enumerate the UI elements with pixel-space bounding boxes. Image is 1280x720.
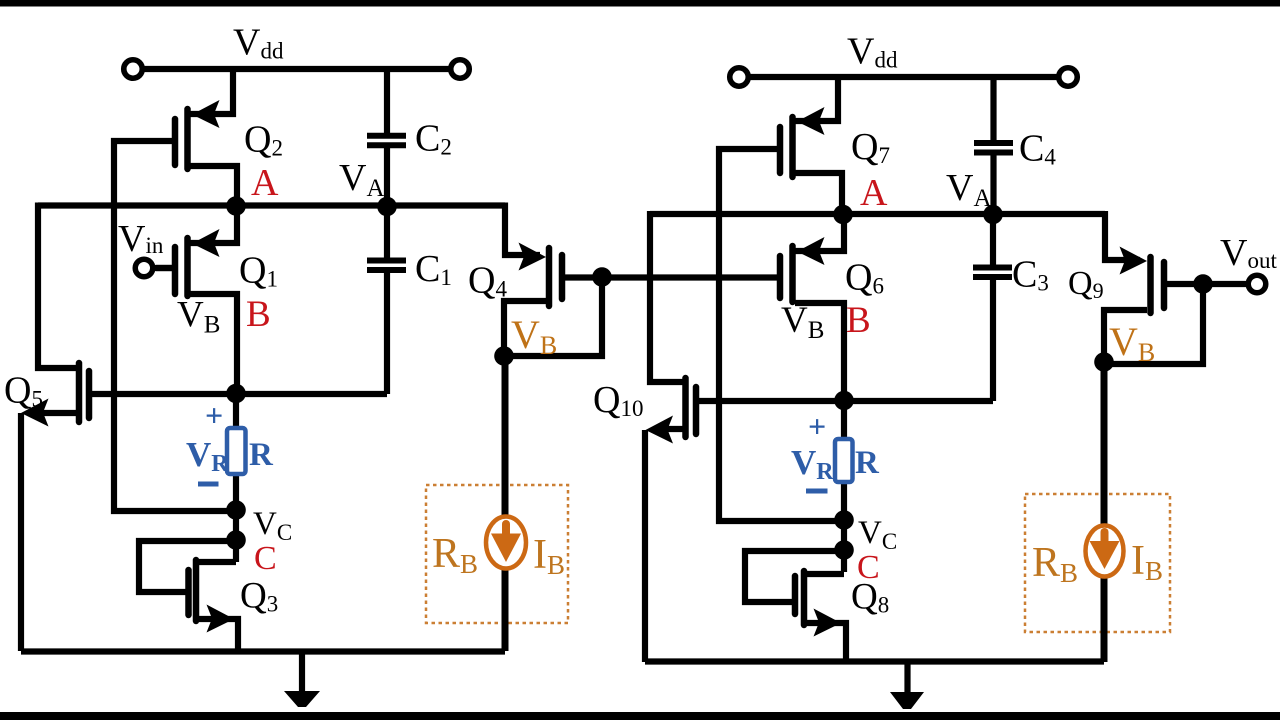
node C junction 2 stage 2 bbox=[834, 540, 854, 560]
node VB junction stage 1 bbox=[494, 346, 514, 366]
wire IB to ground stage 1 bbox=[502, 566, 509, 651]
node VB junction stage 2 bbox=[1094, 352, 1114, 372]
input terminal Vin bbox=[135, 259, 153, 277]
wire C1 bottom to node B bbox=[384, 272, 390, 394]
label minus stage 1 bbox=[198, 482, 219, 487]
power terminal Vdd right stage 1 bbox=[451, 60, 470, 79]
wire node A bus bbox=[38, 202, 505, 208]
wire node B through R to Q8 drain stage 2 bbox=[841, 401, 847, 572]
transistor Q7 bbox=[780, 74, 842, 217]
wire Vdd rail stage 1 bbox=[142, 66, 451, 72]
wire IB to ground stage 2 bbox=[1101, 573, 1108, 662]
node VA junction stage 1 bbox=[377, 197, 397, 217]
svg-text:C: C bbox=[254, 540, 277, 577]
wire Q7 gate to node C stage 2 bbox=[719, 149, 844, 521]
transistor Q3 bbox=[189, 560, 239, 651]
resistor R stage 1 bbox=[227, 428, 246, 474]
transistor Q9 bbox=[1104, 211, 1246, 362]
current source IB stage 2 bbox=[1086, 526, 1124, 577]
wire node B bus stage 2 bbox=[699, 398, 993, 404]
current source IB stage 1 bbox=[486, 517, 526, 569]
wire C3 top bbox=[990, 214, 996, 265]
capacitor C3 bbox=[973, 268, 1012, 278]
wire node B through R to Q3 drain bbox=[233, 394, 239, 562]
wire node A bus stage 2 bbox=[650, 211, 1105, 217]
node C junction 1 stage 2 bbox=[834, 510, 854, 530]
wire node A to Q10 drain bbox=[650, 211, 683, 382]
power terminal Vdd right stage 2 bbox=[1059, 68, 1078, 87]
wire ground bus stage 1 bbox=[21, 648, 505, 654]
transistor Q1 bbox=[156, 206, 237, 394]
power terminal Vdd left stage 1 bbox=[124, 60, 143, 79]
node B junction stage 2 bbox=[834, 391, 854, 411]
wire node B bus bbox=[92, 391, 387, 397]
node Vout junction bbox=[1193, 274, 1213, 294]
STAGE1 wires bbox=[21, 69, 778, 652]
transistor Q5 bbox=[21, 363, 89, 651]
bias network box RB stage 1 bbox=[426, 485, 568, 623]
power terminal Vdd left stage 2 bbox=[730, 68, 749, 87]
svg-text:B: B bbox=[246, 294, 271, 335]
wire Q2 gate to node C bbox=[114, 141, 236, 511]
wire interstage Q4 gate to Q6 gate bbox=[564, 274, 778, 280]
node VA junction stage 2 bbox=[983, 205, 1003, 225]
wire C1 top bbox=[384, 206, 390, 258]
bias network box RB stage 2 bbox=[1025, 494, 1170, 632]
wire node A to Q5 drain bbox=[38, 203, 77, 369]
wire C2 bottom to node VA bbox=[384, 148, 390, 206]
svg-text:R: R bbox=[855, 445, 880, 481]
ground symbol stage 2 bbox=[890, 662, 924, 709]
node B junction stage 1 bbox=[226, 384, 246, 404]
wire Q3 gate loop bbox=[139, 541, 236, 592]
wire C4 bottom to node VA bbox=[990, 155, 996, 214]
node Q4 gate junction bbox=[592, 267, 612, 287]
transistor Q6 bbox=[780, 214, 844, 401]
transistor Q10 bbox=[645, 378, 696, 662]
wire C4 top bbox=[990, 77, 996, 140]
wire VB to current source IB stage 1 bbox=[502, 356, 509, 521]
wire C3 bottom to node B bbox=[990, 279, 996, 401]
STAGE 2 wires bbox=[645, 77, 1203, 662]
wire Q8 gate loop bbox=[745, 551, 844, 602]
resistor R stage 2 bbox=[835, 439, 853, 482]
node A junction stage 1 bbox=[226, 196, 246, 216]
wire Vin to Q1 gate bbox=[153, 265, 172, 271]
wire C2 top bbox=[384, 69, 390, 133]
node C junction 2 stage 1 bbox=[226, 530, 246, 550]
svg-text:R: R bbox=[249, 437, 274, 473]
wire Vdd rail stage 2 bbox=[748, 74, 1059, 80]
capacitor C2 bbox=[367, 136, 406, 146]
svg-text:+: + bbox=[808, 408, 826, 444]
output terminal Vout bbox=[1248, 275, 1266, 293]
transistor Q4 bbox=[504, 203, 562, 357]
label minus stage 2 bbox=[806, 489, 828, 494]
wire Q9 gate node down to VB stage 2 bbox=[1106, 284, 1203, 364]
svg-text:B: B bbox=[846, 300, 871, 341]
node C junction 1 stage 1 bbox=[226, 500, 246, 520]
ground symbol stage 1 bbox=[284, 651, 320, 707]
transistor Q8 bbox=[795, 571, 846, 662]
wire Q4 gate node down to VB bbox=[506, 277, 602, 356]
wire VB to current source IB stage 2 bbox=[1101, 362, 1108, 529]
svg-text:A: A bbox=[251, 162, 279, 204]
svg-text:A: A bbox=[860, 172, 888, 214]
capacitor C1 bbox=[367, 261, 406, 271]
svg-text:+: + bbox=[205, 397, 223, 433]
capacitor C4 bbox=[974, 143, 1013, 153]
node A junction stage 2 bbox=[833, 205, 853, 225]
wire ground bus stage 2 bbox=[645, 658, 1104, 664]
transistor Q2 bbox=[175, 66, 237, 209]
